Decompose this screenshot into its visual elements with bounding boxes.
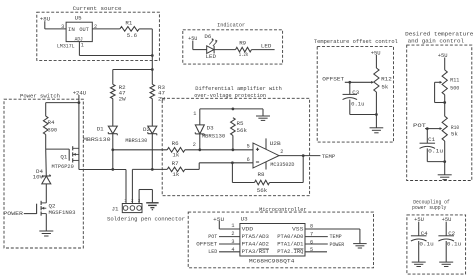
svg-text:C2: C2 [448,230,455,237]
svg-text:Current source: Current source [73,5,122,12]
svg-text:R1: R1 [125,19,132,26]
svg-text:J1: J1 [112,206,119,213]
svg-text:1: 1 [193,111,196,117]
svg-text:2W: 2W [158,95,165,102]
svg-text:R8: R8 [258,171,265,178]
svg-text:MGSF1N03: MGSF1N03 [49,209,76,216]
svg-text:power supply: power supply [412,205,447,211]
svg-text:MC68HC908QT4: MC68HC908QT4 [249,257,295,264]
svg-text:R7: R7 [172,160,179,167]
svg-text:VDD: VDD [242,225,254,232]
svg-text:3: 3 [61,24,64,30]
svg-text:1k: 1k [172,151,179,158]
svg-text:2: 2 [193,142,196,148]
svg-text:R5: R5 [237,120,244,127]
svg-text:5: 5 [247,144,250,150]
svg-text:LED: LED [261,42,272,49]
svg-text:0.1u: 0.1u [428,148,443,155]
svg-text:POWER: POWER [3,210,23,217]
svg-text:TEMP: TEMP [322,153,336,160]
svg-text:PTA0/AD0: PTA0/AD0 [277,233,304,240]
svg-text:over-voltage protection: over-voltage protection [194,92,266,99]
svg-text:+24U: +24U [73,90,87,97]
svg-text:0.1u: 0.1u [351,101,364,108]
svg-text:POT: POT [208,233,217,240]
svg-text:IN: IN [68,26,75,33]
svg-text:Q1: Q1 [60,153,67,160]
svg-text:+5U: +5U [371,49,381,56]
svg-text:0.1u: 0.1u [419,241,433,248]
svg-text:U5: U5 [75,14,82,21]
svg-text:U3: U3 [241,215,248,222]
svg-text:Microcontroller: Microcontroller [259,206,307,213]
svg-text:5k: 5k [451,130,458,137]
svg-text:MC33502D: MC33502D [270,161,294,168]
svg-text:R4: R4 [48,119,55,126]
svg-text:390: 390 [48,126,58,133]
svg-text:TEMP: TEMP [330,233,343,240]
svg-text:56k: 56k [237,127,248,134]
svg-text:MBRS130: MBRS130 [125,137,147,144]
svg-text:0.1u: 0.1u [447,241,461,248]
svg-text:Temperature offset control: Temperature offset control [314,38,398,45]
svg-text:1: 1 [231,223,234,229]
svg-text:+5U: +5U [414,216,424,223]
svg-text:PTA1/AD1: PTA1/AD1 [277,241,304,248]
svg-text:1: 1 [81,43,84,49]
svg-text:POT: POT [413,122,427,129]
svg-text:R12: R12 [381,76,392,83]
svg-text:5k: 5k [381,83,388,90]
svg-text:Indicator: Indicator [217,21,245,28]
svg-text:LED: LED [206,53,217,60]
svg-text:+5U: +5U [442,216,452,223]
svg-text:C4: C4 [421,230,428,237]
svg-text:Power switch: Power switch [20,93,60,100]
svg-text:R6: R6 [172,140,179,147]
svg-text:Soldering pen connector: Soldering pen connector [107,216,185,223]
svg-text:LM317L: LM317L [57,42,75,49]
svg-text:VSS: VSS [292,225,304,232]
svg-text:D3: D3 [207,124,214,131]
svg-text:1k: 1k [172,171,179,178]
svg-text:R9: R9 [239,40,246,47]
svg-text:D2: D2 [143,126,150,133]
svg-text:U2B: U2B [270,140,282,147]
svg-text:56k: 56k [257,187,268,194]
svg-text:+5U: +5U [438,52,448,59]
svg-text:PTA5/AD3: PTA5/AD3 [242,233,270,240]
svg-text:and gain control: and gain control [408,37,465,44]
svg-text:C3: C3 [352,89,359,96]
svg-text:OFFSET: OFFSET [196,241,218,248]
svg-text:D6: D6 [204,33,211,40]
svg-text:6: 6 [247,157,250,163]
svg-text:MBRS130: MBRS130 [83,136,111,143]
svg-text:R11: R11 [450,77,460,84]
svg-text:OUT: OUT [79,26,89,33]
svg-text:MTP6P20: MTP6P20 [52,163,75,170]
svg-text:2W: 2W [119,95,126,102]
svg-text:OFFSET: OFFSET [322,76,344,83]
svg-text:2: 2 [280,149,283,155]
svg-text:MBRS130: MBRS130 [202,132,226,139]
svg-text:10V: 10V [33,173,44,180]
svg-text:D1: D1 [97,125,104,132]
svg-text:PTA4/AD2: PTA4/AD2 [242,241,270,248]
svg-text:500: 500 [450,85,460,92]
svg-text:LED: LED [208,248,217,255]
svg-text:5.6: 5.6 [127,32,138,39]
svg-text:1.2k: 1.2k [239,52,249,58]
svg-text:ADJ: ADJ [75,35,83,42]
svg-text:POWER: POWER [330,241,345,248]
svg-text:C1: C1 [428,136,435,143]
